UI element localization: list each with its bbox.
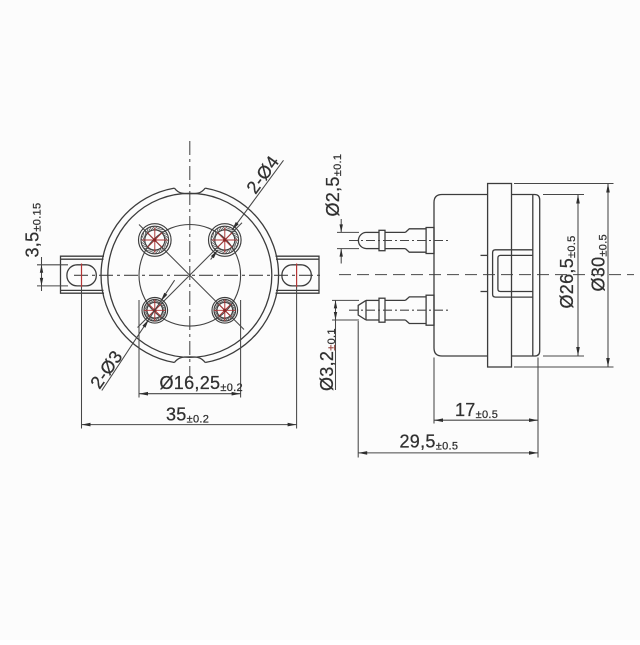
pin hole top-left (Ø4)	[139, 224, 172, 257]
rear boss outline	[512, 195, 540, 357]
pin pitch circle Ø16,25	[139, 224, 241, 326]
upper pin Ø2,5 (side view)	[358, 228, 434, 254]
leader 2-Ø4	[232, 160, 284, 230]
red slot center mark left	[81, 264, 83, 288]
dimension 29,5±0.5	[358, 321, 538, 458]
top notch dip	[174, 188, 205, 194]
dimension Ø2,5±0.1 (upper pin dia)	[337, 219, 359, 264]
dimension Ø3,2±0.1 (lower pin dia)	[332, 300, 359, 390]
lower pin centerline	[349, 309, 449, 311]
right mounting ear	[276, 256, 320, 293]
center clip outer bracket	[493, 250, 533, 297]
dimension 17±0.5	[434, 358, 538, 458]
lower pin Ø3,2 (side view)	[358, 295, 434, 325]
rear boss inner edge	[532, 195, 534, 357]
pin hole bottom-right (Ø3)	[212, 298, 238, 324]
dimension Ø26,5±0.5 (body dia)	[543, 195, 584, 357]
right ear slot	[282, 265, 311, 286]
upper pin centerline	[349, 240, 449, 242]
socket inner rim circle	[108, 193, 272, 357]
red slot center mark right	[296, 264, 298, 288]
pin hole bottom-left (Ø3)	[142, 298, 168, 324]
left ear slot	[67, 265, 96, 286]
left mounting ear	[61, 256, 105, 293]
pin hole top-right (Ø4)	[209, 224, 242, 257]
vertical centerline left view	[189, 141, 191, 377]
dimension Ø30±0.5 (flange dia)	[514, 184, 614, 368]
dimension 35±0.2 (mounting hole spacing)	[82, 287, 297, 429]
socket body (side view)	[434, 195, 488, 357]
socket outer circle (with keying notches top/bottom)	[101, 188, 279, 362]
mounting flange plate	[488, 184, 512, 368]
diagonal centerline NW-SE through pins	[139, 225, 244, 330]
center clip inner bracket	[498, 255, 533, 291]
clip stubs in body	[481, 254, 488, 256]
dimension Ø16,25±0.2 (pitch circle)	[139, 300, 241, 398]
bottom notch dip	[174, 357, 205, 363]
diagonal centerline NE-SW through pins	[138, 223, 243, 328]
leader 2-Ø3	[102, 280, 175, 390]
horizontal centerline left view	[74, 274, 322, 276]
main horizontal centerline right view	[339, 274, 634, 276]
dimension 3,5±0.15 (ear slot width)	[37, 257, 68, 291]
